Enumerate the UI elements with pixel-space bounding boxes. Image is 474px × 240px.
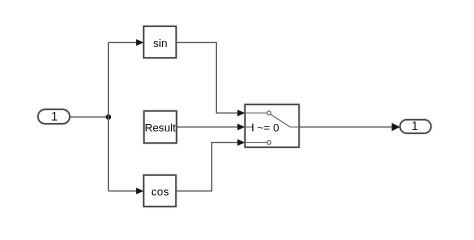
switch output stub <box>290 126 299 128</box>
switch block U1 <box>245 105 299 148</box>
svg-text:sin: sin <box>153 38 167 50</box>
switch bottom port stub <box>245 142 267 144</box>
switch lever diagonal <box>271 114 290 127</box>
wire from switch to outport <box>299 123 400 131</box>
svg-text:~= 0: ~= 0 <box>257 123 279 135</box>
switch top port stub <box>245 112 267 114</box>
switch middle port tick <box>252 124 254 132</box>
svg-text:Result: Result <box>145 123 176 135</box>
switch bottom port circle <box>267 141 271 145</box>
wire from inport to junction <box>70 116 109 118</box>
svg-text:1: 1 <box>412 121 418 133</box>
wire to sin block <box>108 39 143 46</box>
wire to cos block <box>108 188 143 195</box>
outport block 1 (oval "1" right) <box>400 120 431 133</box>
wire from Result to switch middle input <box>177 124 246 131</box>
Result block <box>144 111 177 143</box>
wire from sin to switch top input <box>176 43 245 117</box>
inport block 1 (oval "1" left) <box>38 109 70 123</box>
switch top port circle <box>267 111 271 115</box>
switch middle port stub <box>245 126 253 128</box>
svg-text:cos: cos <box>151 187 169 199</box>
svg-text:1: 1 <box>51 111 57 123</box>
cos block <box>144 175 176 206</box>
junction node <box>106 114 111 119</box>
wire trunk vertical <box>107 43 109 192</box>
sin block <box>144 26 176 58</box>
wire from cos to switch bottom input <box>176 139 245 191</box>
